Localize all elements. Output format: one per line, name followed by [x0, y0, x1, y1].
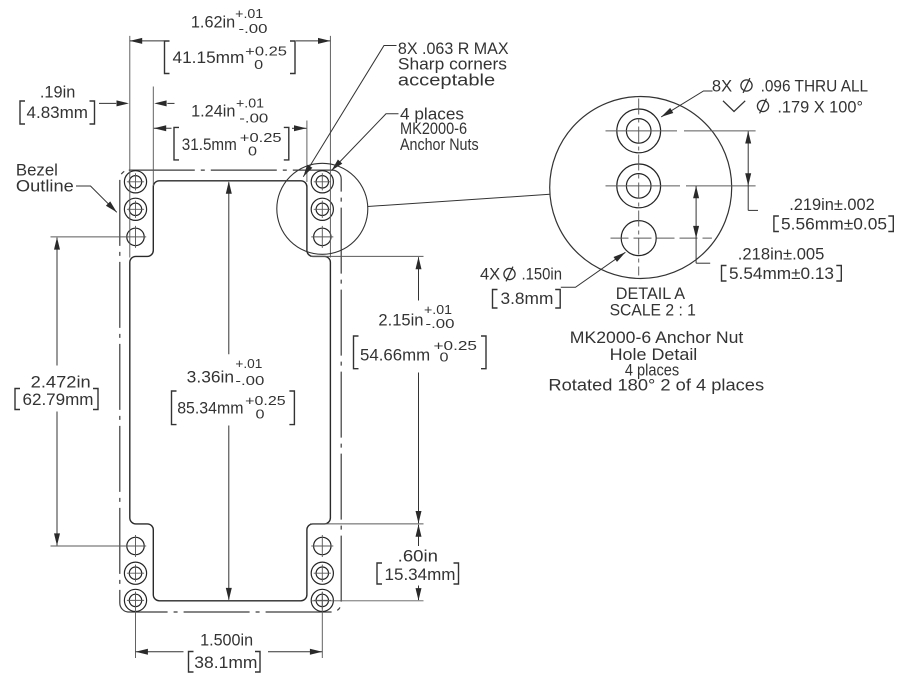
- svg-text:4X: 4X: [480, 265, 500, 284]
- svg-text:15.34mm: 15.34mm: [385, 565, 456, 584]
- svg-text:+.01: +.01: [236, 96, 264, 110]
- svg-text:2.15in: 2.15in: [378, 311, 423, 330]
- svg-text:Anchor Nuts: Anchor Nuts: [400, 135, 479, 154]
- svg-text:3.8mm: 3.8mm: [501, 289, 554, 308]
- svg-text:0: 0: [254, 58, 263, 72]
- svg-text:+.01: +.01: [424, 303, 452, 317]
- svg-text:0: 0: [440, 351, 449, 365]
- svg-text:Outline: Outline: [16, 176, 74, 195]
- svg-text:1.62in: 1.62in: [191, 12, 235, 31]
- svg-text:0: 0: [248, 145, 257, 159]
- svg-text:+.01: +.01: [235, 357, 262, 371]
- svg-text:31.5mm: 31.5mm: [182, 135, 237, 154]
- svg-text:8X: 8X: [712, 77, 732, 96]
- svg-text:5.54mm±0.13: 5.54mm±0.13: [729, 264, 834, 283]
- svg-text:1.24in: 1.24in: [191, 101, 235, 120]
- svg-text:2.472in: 2.472in: [31, 373, 91, 392]
- svg-text:acceptable: acceptable: [398, 70, 495, 89]
- svg-text:54.66mm: 54.66mm: [360, 345, 430, 364]
- svg-text:+0.25: +0.25: [240, 131, 282, 145]
- svg-text:38.1mm: 38.1mm: [194, 653, 257, 672]
- svg-text:MK2000-6 Anchor Nut: MK2000-6 Anchor Nut: [570, 328, 744, 347]
- svg-text:4.83mm: 4.83mm: [27, 103, 89, 122]
- svg-text:.150in: .150in: [522, 265, 563, 284]
- svg-text:-.00: -.00: [426, 317, 455, 331]
- svg-text:3.36in: 3.36in: [187, 368, 234, 387]
- svg-text:.218in±.005: .218in±.005: [738, 244, 825, 263]
- svg-text:+0.25: +0.25: [245, 45, 287, 59]
- svg-text:62.79mm: 62.79mm: [23, 390, 94, 409]
- svg-text:85.34mm: 85.34mm: [177, 399, 243, 418]
- svg-text:.219in±.002: .219in±.002: [789, 195, 875, 214]
- svg-text:.096 THRU ALL: .096 THRU ALL: [761, 77, 869, 96]
- svg-text:-.00: -.00: [239, 22, 268, 36]
- svg-text:.179 X 100°: .179 X 100°: [777, 97, 863, 116]
- svg-text:1.500in: 1.500in: [200, 630, 253, 649]
- svg-text:5.56mm±0.05: 5.56mm±0.05: [781, 214, 887, 233]
- svg-text:0: 0: [256, 407, 265, 421]
- svg-text:-.00: -.00: [235, 374, 264, 388]
- svg-text:-.00: -.00: [239, 111, 268, 125]
- svg-text:41.15mm: 41.15mm: [173, 48, 245, 67]
- svg-text:.19in: .19in: [40, 82, 75, 101]
- svg-text:SCALE 2 : 1: SCALE 2 : 1: [610, 301, 696, 320]
- svg-text:.60in: .60in: [398, 546, 438, 565]
- svg-text:Rotated 180° 2 of 4 places: Rotated 180° 2 of 4 places: [548, 376, 764, 395]
- svg-text:+0.25: +0.25: [245, 394, 285, 408]
- svg-text:+.01: +.01: [235, 7, 263, 21]
